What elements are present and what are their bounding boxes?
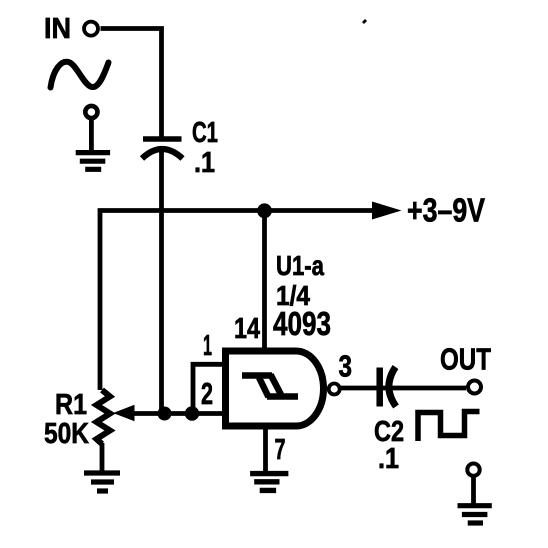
junction dot at C1 wire and wiper wire bbox=[158, 407, 172, 421]
square wave symbol bbox=[418, 412, 480, 442]
svg-text:.1: .1 bbox=[378, 443, 399, 475]
supply rail wire bbox=[100, 211, 372, 391]
R1 wiper arrow head bbox=[113, 405, 135, 421]
supply arrowhead bbox=[372, 202, 402, 220]
svg-text:7: 7 bbox=[275, 434, 286, 466]
wire pin 7 to ground bbox=[263, 429, 268, 471]
svg-text:4093: 4093 bbox=[273, 305, 331, 342]
wire C1 bottom down to wiper node bbox=[159, 150, 164, 414]
wire terminal to input ground bbox=[89, 119, 94, 153]
output ground terminal circle bbox=[467, 464, 479, 476]
svg-text:3: 3 bbox=[339, 349, 353, 384]
svg-text:R1: R1 bbox=[55, 389, 87, 421]
terminal OUT bbox=[468, 381, 481, 394]
svg-text:1: 1 bbox=[203, 330, 212, 362]
output inversion bubble pin 3 bbox=[329, 384, 340, 395]
input ground terminal circle bbox=[85, 106, 97, 118]
svg-text:14: 14 bbox=[234, 313, 260, 345]
capacitor C1 bbox=[142, 139, 183, 159]
svg-text:C1: C1 bbox=[192, 117, 218, 149]
svg-text:U1-a: U1-a bbox=[276, 250, 324, 281]
wire pin 3 to OUT bbox=[341, 386, 466, 391]
sine-wave source symbol bbox=[51, 62, 109, 88]
ink speck bbox=[362, 19, 367, 24]
junction dot at pin1 bracket bbox=[185, 406, 199, 420]
svg-text:+3–9V: +3–9V bbox=[407, 192, 485, 229]
potentiometer R1 zigzag bbox=[97, 390, 111, 444]
svg-text:.1: .1 bbox=[194, 147, 215, 179]
capacitor C2 bbox=[380, 367, 396, 407]
ground (output) bbox=[458, 506, 492, 523]
schmitt trigger hysteresis symbol bbox=[242, 375, 298, 398]
wire pin 1 bracket bbox=[193, 364, 223, 413]
wire from IN terminal to C1 top bbox=[101, 29, 162, 137]
svg-text:2: 2 bbox=[201, 376, 213, 411]
wire to output ground bbox=[471, 476, 476, 505]
svg-text:OUT: OUT bbox=[440, 341, 491, 376]
junction node on supply rail bbox=[257, 203, 272, 218]
wiper wire to pin 2 bbox=[131, 411, 224, 416]
ground (input) bbox=[76, 153, 110, 170]
NAND gate U1-a body bbox=[226, 351, 324, 426]
terminal IN bbox=[84, 22, 98, 36]
svg-text:50K: 50K bbox=[44, 418, 89, 450]
svg-text:IN: IN bbox=[44, 13, 71, 45]
ground (R1) bbox=[84, 473, 120, 491]
ground (pin 7) bbox=[250, 474, 288, 491]
wire pin 14 from supply to gate top bbox=[262, 211, 267, 352]
wire R1 bottom to ground bbox=[100, 443, 105, 471]
